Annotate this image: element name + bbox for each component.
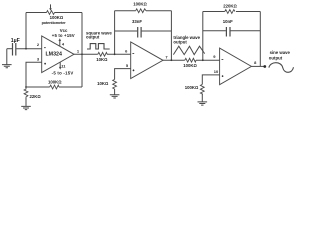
junction pin6 node dot <box>114 53 116 55</box>
wire stage2 output to stage3 input <box>163 59 220 61</box>
resistor R7 100K zigzag <box>185 58 196 62</box>
svg-text:4: 4 <box>62 41 65 46</box>
wire pin5 <box>115 69 131 80</box>
wire output rail stage1 <box>81 13 83 88</box>
wire stage2 loop left vertical <box>114 11 116 55</box>
wire pin3 to bottom rail <box>26 62 42 87</box>
capacitor C3 10nF plates <box>226 27 230 37</box>
svg-text:10KΩ: 10KΩ <box>96 57 108 62</box>
wire pot top rail <box>26 12 82 14</box>
wire pin10 <box>202 75 219 85</box>
capacitor C1 plates <box>13 43 16 56</box>
svg-text:100KΩ: 100KΩ <box>50 15 64 20</box>
wire stage3 loop right vertical <box>259 12 261 67</box>
svg-text:5: 5 <box>126 63 129 68</box>
output terminal dot <box>263 65 266 68</box>
svg-text:9: 9 <box>213 54 216 59</box>
wire feedback vertical to node A <box>25 13 27 49</box>
junction node A dot <box>25 48 27 50</box>
svg-text:output: output <box>269 55 283 60</box>
wire stage3 loop top <box>203 11 260 13</box>
ground for R6 <box>110 89 120 98</box>
svg-text:100KΩ: 100KΩ <box>185 85 199 90</box>
pin 4 Vcc arrow <box>59 40 61 46</box>
svg-text:output: output <box>173 39 187 44</box>
svg-text:10KΩ: 10KΩ <box>97 81 109 86</box>
svg-text:2: 2 <box>37 42 40 47</box>
junction stage3 in dot <box>202 59 204 61</box>
resistor R5 100K zigzag stage2 <box>136 9 146 13</box>
svg-text:10nF: 10nF <box>223 19 233 24</box>
wire stage3 loop left vertical <box>202 12 204 61</box>
junction output rail dot <box>81 53 83 55</box>
svg-text:-5 to -15V: -5 to -15V <box>52 71 74 76</box>
wire C1 to node A <box>16 48 41 50</box>
ground for C1 <box>2 49 12 68</box>
wire 33nF branch <box>115 30 172 32</box>
resistor R8 220K zigzag <box>225 10 235 14</box>
svg-text:33nF: 33nF <box>132 19 142 24</box>
wire stage2 loop right vertical <box>170 11 172 61</box>
svg-text:100KΩ: 100KΩ <box>133 2 147 7</box>
svg-text:1: 1 <box>77 49 80 54</box>
resistor R6 10K vertical <box>113 79 117 89</box>
svg-text:22KΩ: 22KΩ <box>30 94 42 99</box>
svg-text:6: 6 <box>125 48 128 53</box>
pin 11 Vee arrow <box>59 62 61 67</box>
square wave symbol <box>87 44 110 49</box>
svg-text:8: 8 <box>254 60 257 65</box>
ground for R3 <box>21 98 31 110</box>
svg-text:+5 to +15V: +5 to +15V <box>52 33 75 38</box>
wire output sine <box>251 65 263 67</box>
svg-text:11: 11 <box>61 63 66 68</box>
op-amp input polarity signs <box>44 48 224 77</box>
wire stage2 loop top <box>115 10 172 12</box>
junction stage2 out dot <box>171 59 173 61</box>
capacitor C2 33nF plates <box>138 27 141 38</box>
resistor R2 100K zigzag bottom <box>50 85 59 89</box>
svg-text:7: 7 <box>165 54 168 59</box>
svg-text:100KΩ: 100KΩ <box>48 79 62 84</box>
triangle wave symbol <box>173 46 204 54</box>
op-amp U1B triangle <box>131 42 163 79</box>
resistor R1 100K potentiometer zigzag <box>47 11 55 15</box>
svg-text:220KΩ: 220KΩ <box>223 4 237 9</box>
svg-text:3: 3 <box>37 56 40 61</box>
wire pin1 output to 10K <box>74 53 115 55</box>
wire bottom rail stage1 <box>26 86 82 88</box>
resistor R9 100K vertical <box>200 84 204 94</box>
sine wave symbol <box>269 63 294 73</box>
svg-text:LM324: LM324 <box>45 51 62 57</box>
resistor R4 10K zigzag <box>98 52 107 56</box>
capacitor C1 1uF left wire <box>7 48 12 50</box>
svg-text:output: output <box>86 35 100 40</box>
op-amp U1A triangle <box>42 36 74 73</box>
junction bottom rail dot <box>25 86 27 88</box>
resistor R3 22K vertical <box>24 87 28 98</box>
op-amp U1C triangle <box>220 48 252 85</box>
svg-text:1µF: 1µF <box>11 38 20 44</box>
svg-text:100KΩ: 100KΩ <box>183 63 197 68</box>
potentiometer wiper arrow <box>50 4 52 9</box>
ground for R9 <box>198 94 208 106</box>
wire 10nF branch <box>203 30 260 32</box>
svg-text:potentiometer: potentiometer <box>42 21 67 25</box>
wire pin6 <box>115 53 131 55</box>
svg-text:10: 10 <box>214 69 219 74</box>
